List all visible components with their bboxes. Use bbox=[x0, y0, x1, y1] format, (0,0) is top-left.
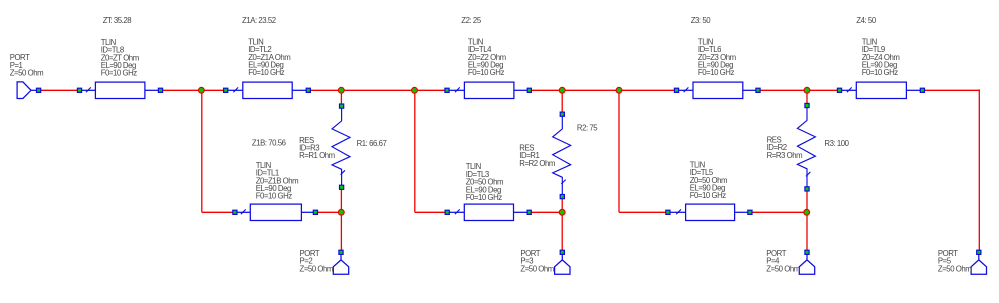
svg-text:Z1A: 23.52: Z1A: 23.52 bbox=[242, 16, 276, 25]
svg-text:Z=50 Ohm: Z=50 Ohm bbox=[300, 264, 333, 273]
svg-text:F0=10 GHz: F0=10 GHz bbox=[468, 68, 505, 77]
svg-text:Z=50 Ohm: Z=50 Ohm bbox=[766, 264, 799, 273]
svg-text:Z=50 Ohm: Z=50 Ohm bbox=[520, 264, 553, 273]
svg-text:Z3: 50: Z3: 50 bbox=[691, 16, 712, 25]
svg-text:F0=10 GHz: F0=10 GHz bbox=[698, 68, 735, 77]
svg-text:R3: 100: R3: 100 bbox=[824, 139, 849, 148]
svg-text:Z=50 Ohm: Z=50 Ohm bbox=[938, 264, 971, 273]
svg-text:F0=10 GHz: F0=10 GHz bbox=[466, 193, 503, 202]
svg-text:Z4: 50: Z4: 50 bbox=[856, 16, 877, 25]
svg-text:Z=50 Ohm: Z=50 Ohm bbox=[10, 69, 43, 78]
svg-text:Z2: 25: Z2: 25 bbox=[461, 16, 482, 25]
svg-text:F0=10 GHz: F0=10 GHz bbox=[690, 191, 727, 200]
svg-text:R=R3 Ohm: R=R3 Ohm bbox=[767, 151, 803, 160]
svg-text:F0=10 GHz: F0=10 GHz bbox=[248, 68, 285, 77]
svg-text:Z1B: 70.56: Z1B: 70.56 bbox=[252, 139, 286, 148]
svg-text:F0=10 GHz: F0=10 GHz bbox=[256, 192, 293, 201]
svg-text:ZT: 35.28: ZT: 35.28 bbox=[103, 16, 132, 25]
svg-text:F0=10 GHz: F0=10 GHz bbox=[101, 69, 138, 78]
svg-text:R1: 66.67: R1: 66.67 bbox=[357, 139, 387, 148]
svg-text:R2: 75: R2: 75 bbox=[577, 123, 598, 132]
svg-text:R=R1 Ohm: R=R1 Ohm bbox=[299, 151, 335, 160]
svg-text:F0=10 GHz: F0=10 GHz bbox=[862, 68, 899, 77]
svg-text:R=R2 Ohm: R=R2 Ohm bbox=[519, 159, 555, 168]
